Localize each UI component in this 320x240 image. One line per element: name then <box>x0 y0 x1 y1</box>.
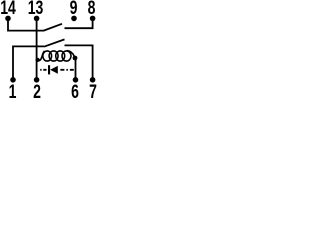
coil junction node dot <box>73 56 78 61</box>
switch 1 movable arm <box>43 24 62 31</box>
pin 13 terminal dot <box>34 16 40 22</box>
pin 9 terminal dot (no internal connection) <box>71 16 77 22</box>
coil K1 <box>37 51 74 61</box>
mechanical actuator dashed link with arrow <box>40 65 74 74</box>
svg-text:1: 1 <box>9 81 17 102</box>
svg-text:13: 13 <box>28 0 44 18</box>
wire fixed contact 1 to pin 8 <box>65 19 93 29</box>
pin 2 terminal dot <box>34 77 40 83</box>
svg-text:14: 14 <box>0 0 16 18</box>
pin 6 terminal dot <box>73 77 79 83</box>
svg-text:9: 9 <box>70 0 78 18</box>
svg-text:2: 2 <box>33 81 41 102</box>
svg-text:7: 7 <box>89 81 97 102</box>
pin 14 terminal dot <box>5 16 11 22</box>
wire pin 6 vertical from coil end <box>75 57 77 78</box>
svg-text:8: 8 <box>88 0 96 18</box>
wire pin 1 L-shape to switch 2 pivot <box>13 46 44 78</box>
coil-wire junction blob <box>36 58 40 62</box>
svg-text:6: 6 <box>71 81 79 102</box>
wire fixed contact 2 to pin 7 <box>65 45 93 78</box>
pin 1 terminal dot <box>10 77 16 83</box>
wire pin 14 L-shape to switch 1 pivot <box>8 19 43 31</box>
relay schematic drawing <box>0 0 100 102</box>
switch 2 movable arm <box>44 39 65 46</box>
wire pin 13 to pin 2 vertical <box>36 19 38 79</box>
pin 7 terminal dot <box>90 77 96 83</box>
pin 8 terminal dot <box>90 16 96 22</box>
